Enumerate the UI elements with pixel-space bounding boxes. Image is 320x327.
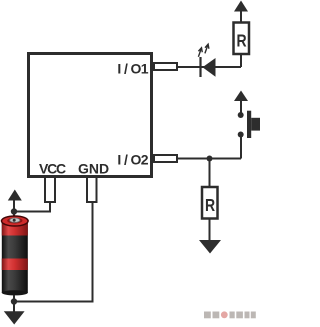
LED D1 cathode bar — [199, 57, 201, 77]
wire GND pin down and left to battery - — [14, 203, 93, 302]
wire I/O1 pin to LED anode net — [178, 66, 241, 68]
wire battery + up to VCC arrow — [13, 200, 15, 221]
LED D1 emission arrow 1 — [198, 48, 202, 57]
wire battery - to ground / GND net — [13, 295, 15, 312]
LED D1 triangle — [203, 58, 216, 77]
svg-text:R: R — [236, 32, 247, 51]
ground symbol (below R2) — [199, 240, 221, 254]
svg-text:R: R — [205, 196, 216, 215]
button S1 top terminal (junction dot) — [238, 112, 244, 118]
pin I/O2 (chip right, bottom) — [154, 155, 177, 162]
svg-text:I / O1: I / O1 — [117, 61, 148, 77]
wire button bottom terminal down to I/O2 net — [240, 136, 242, 159]
VCC symbol (up arrow above R1) — [234, 1, 248, 12]
resistor R1 (top right) — [234, 23, 250, 55]
svg-text:GND: GND — [78, 160, 109, 176]
wire R2 bottom to ground — [209, 219, 211, 242]
chip U1 (microcontroller body) — [29, 54, 152, 177]
junction node battery - / GND — [11, 298, 17, 304]
button S1 actuator bar — [247, 111, 251, 138]
wire I/O2 pin to button (horizontal) — [178, 158, 241, 160]
resistor R2 (pull-down) — [202, 187, 218, 219]
VCC symbol (up arrow above battery) — [8, 190, 22, 201]
wire LED to resistor R1 (vertical) — [240, 55, 242, 67]
wire VCC pin down-left to battery + — [14, 203, 50, 212]
watermark 头条 logo+text — [204, 311, 256, 318]
junction node battery + / VCC — [11, 208, 17, 214]
junction node I/O2 / R2 — [207, 156, 213, 162]
wire VCC arrow to button top terminal — [240, 100, 242, 113]
pin VCC (chip bottom) — [45, 177, 55, 202]
pin GND (chip bottom) — [87, 177, 97, 202]
LED D1 emission arrow 2 — [205, 44, 209, 53]
svg-text:I / O2: I / O2 — [117, 152, 148, 168]
button S1 bottom terminal (junction dot) — [238, 132, 244, 138]
svg-text:VCC: VCC — [39, 160, 66, 176]
ground symbol (below battery) — [4, 311, 25, 324]
wire junction down to R2 — [209, 159, 211, 188]
battery BT1 — [2, 216, 29, 295]
button S1 plunger — [251, 118, 260, 131]
VCC symbol (up arrow above button) — [234, 91, 248, 102]
pin I/O1 (chip right, top) — [154, 63, 177, 70]
wire R1 top to VCC arrow — [240, 11, 242, 22]
